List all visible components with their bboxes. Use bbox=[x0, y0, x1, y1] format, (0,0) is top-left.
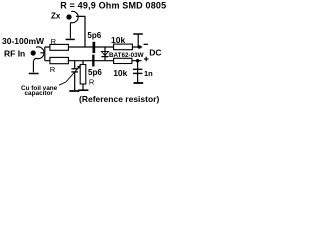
svg-text:30-100mW: 30-100mW bbox=[2, 36, 45, 46]
svg-text:R: R bbox=[51, 37, 57, 46]
svg-text:RF In: RF In bbox=[4, 48, 25, 58]
svg-text:1n: 1n bbox=[144, 69, 153, 78]
svg-text:5p6: 5p6 bbox=[87, 31, 101, 40]
svg-text:capacitor: capacitor bbox=[25, 90, 54, 97]
svg-text:10k: 10k bbox=[111, 35, 125, 45]
svg-text:5p6: 5p6 bbox=[88, 68, 102, 77]
svg-text:R: R bbox=[89, 78, 95, 87]
svg-text:R = 49,9 Ohm SMD 0805: R = 49,9 Ohm SMD 0805 bbox=[60, 0, 166, 10]
svg-text:(Reference resistor): (Reference resistor) bbox=[79, 94, 159, 104]
svg-text:BAT62-03W: BAT62-03W bbox=[109, 52, 144, 59]
svg-text:DC: DC bbox=[149, 47, 161, 57]
svg-text:R: R bbox=[50, 65, 56, 74]
svg-text:10k: 10k bbox=[113, 68, 127, 78]
svg-text:Zx: Zx bbox=[51, 12, 61, 21]
